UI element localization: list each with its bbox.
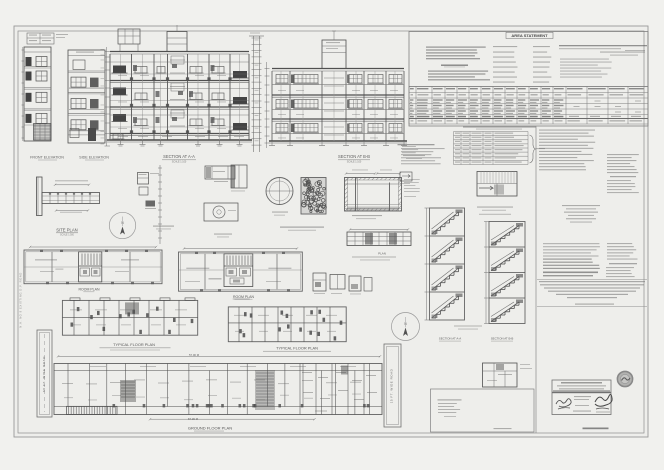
bottom paragraph bounding lines — [537, 278, 647, 280]
stair mumty section A-A — [167, 32, 187, 52]
staircase plan detail — [477, 172, 517, 197]
svg-text:ROOM PLAN: ROOM PLAN — [78, 288, 99, 292]
notes under table left — [398, 144, 435, 145]
svg-text:15 FT. WIDE ROAD: 15 FT. WIDE ROAD — [390, 368, 394, 403]
area statement middle label/value pairs — [493, 46, 517, 47]
septic tank side labels — [404, 178, 420, 181]
note label right of section titles — [403, 155, 425, 156]
side elevation (second building elevation) — [68, 50, 105, 143]
svg-text:SECTION AT B-B: SECTION AT B-B — [338, 154, 370, 159]
room plan B — [184, 248, 297, 250]
dim ladder left of section A-A — [106, 47, 108, 146]
svg-text:SITE PLAN: SITE PLAN — [56, 228, 77, 233]
text between stair sections — [454, 326, 482, 327]
svg-text:SECTION AT A-A: SECTION AT A-A — [439, 337, 461, 341]
certificate centered text — [562, 205, 600, 206]
right notes numbered list — [539, 130, 595, 131]
svg-text:SECTION AT B-B: SECTION AT B-B — [491, 337, 514, 341]
septic tank dims above — [346, 173, 375, 175]
roof water tank — [118, 29, 140, 44]
details of soak pit title — [280, 227, 324, 228]
svg-text:TYPICAL FLOOR PLAN: TYPICAL FLOOR PLAN — [113, 342, 155, 347]
svg-text:AREA STATEMENT: AREA STATEMENT — [511, 33, 548, 38]
bottom justified paragraph — [539, 281, 645, 282]
wc details title — [153, 226, 174, 227]
north arrow circle 1 — [109, 212, 135, 238]
staircase section A — [430, 208, 465, 320]
manhole plan — [204, 203, 238, 221]
right column divider — [535, 126, 537, 433]
typical floor plan B — [228, 307, 346, 342]
svg-text:57.00 M: 57.00 M — [188, 417, 199, 421]
stair shaft interior A-A — [170, 59, 185, 61]
svg-text:PLAN: PLAN — [378, 252, 386, 256]
area statement right text block — [559, 45, 647, 46]
central dimension ladder — [253, 36, 255, 152]
north arrow circle 2 — [392, 313, 420, 341]
signature box — [552, 393, 611, 415]
stair mumty section B-B — [322, 40, 346, 69]
staircase plan labels — [477, 207, 513, 208]
svg-text:SCALE 1:500: SCALE 1:500 — [60, 234, 75, 237]
svg-text:TYPICAL FLOOR PLAN: TYPICAL FLOOR PLAN — [276, 346, 318, 351]
circular seal — [617, 371, 632, 386]
wc pan detail — [400, 172, 412, 181]
ground floor stair cores — [120, 380, 136, 402]
soak pit rubble fill section — [301, 178, 326, 215]
dimension line 57.00 M top — [58, 355, 380, 357]
legend box top-left — [27, 33, 54, 44]
ground floor plan — [54, 364, 382, 415]
septic tank title below — [352, 215, 382, 216]
room plan B stair core — [224, 254, 253, 287]
svg-text:SCALE 1:100: SCALE 1:100 — [347, 161, 362, 164]
svg-text:60 FT. WIDE ROAD: 60 FT. WIDE ROAD — [42, 356, 46, 392]
road strip left (60ft wide road) — [37, 330, 52, 417]
section A-A windows — [113, 66, 126, 74]
elevation1 hatched compound wall — [34, 124, 52, 141]
staircase section B — [489, 222, 525, 324]
main area table — [408, 87, 410, 125]
wc vertical dim line — [159, 165, 161, 244]
tenement table — [453, 132, 455, 165]
lintel beam plan detail — [350, 229, 408, 231]
wc detail boxes — [138, 173, 149, 185]
site plan — [37, 177, 43, 216]
right small block 2 — [607, 243, 632, 244]
area statement title — [506, 32, 553, 38]
svg-text:SIDE ELEVATION: SIDE ELEVATION — [79, 156, 109, 160]
inset detail box — [431, 389, 535, 432]
ground floor hatched ramp — [67, 406, 118, 414]
dimension line 57.00 M bottom — [150, 418, 315, 420]
svg-text:57.00 M: 57.00 M — [189, 353, 200, 357]
room plan A stair core — [79, 252, 102, 282]
soak pit plan circle — [266, 178, 293, 205]
pump room plan detail — [483, 363, 518, 387]
dense notes block — [543, 243, 599, 244]
svg-text:N.H. NO 8 EXISTING D.P. RO: N.H. NO 8 EXISTING D.P. ROAD — [19, 272, 23, 327]
section B-B window grids — [276, 75, 288, 84]
septic tank section — [345, 178, 402, 212]
svg-text:GROUND FLOOR PLAN: GROUND FLOOR PLAN — [188, 426, 232, 431]
svg-text:SECTION AT A-A: SECTION AT A-A — [163, 154, 195, 159]
typical floor plan A — [62, 300, 197, 335]
site plan dimension above — [55, 180, 88, 181]
bottom right label — [583, 428, 609, 430]
front elevation (left building elevation) — [24, 47, 51, 141]
area statement left text block — [426, 47, 486, 48]
soak pit section (narrow) — [231, 165, 247, 188]
svg-text:FRONT ELEVATION: FRONT ELEVATION — [30, 156, 64, 160]
small wc plan rects — [313, 273, 326, 291]
approved stamp box — [552, 380, 611, 392]
svg-text:SCALE 1:100: SCALE 1:100 — [172, 161, 187, 164]
area statement block outer box — [409, 32, 648, 127]
tenement statement title — [463, 126, 536, 127]
right sub-block stamps — [607, 154, 639, 155]
room plan A — [30, 246, 156, 248]
road strip right — [384, 344, 401, 427]
septic tank plan (small, left) — [205, 166, 235, 179]
